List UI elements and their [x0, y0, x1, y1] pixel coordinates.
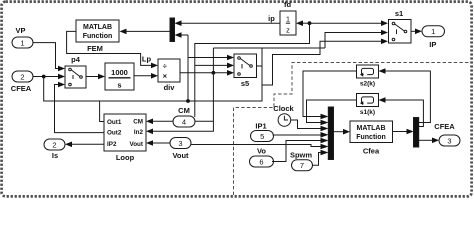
wire clock to mux cfea [291, 120, 321, 129]
wire s2k feedback to mux [303, 71, 357, 117]
svg-text:2: 2 [52, 140, 56, 149]
svg-text:4: 4 [182, 117, 186, 126]
wire mux to MATLAB Cfea [334, 131, 344, 133]
svg-text:p4: p4 [71, 55, 81, 64]
node ip junction [308, 21, 312, 25]
wire s1 to IP [411, 30, 415, 32]
svg-text:Cfea: Cfea [363, 147, 380, 156]
wire Vout right to mux cfea [191, 145, 321, 147]
svg-text:VP: VP [15, 26, 25, 35]
wire Vout to Loop [152, 142, 170, 144]
svg-text:div: div [164, 83, 176, 92]
inport VP [12, 26, 33, 48]
wire CFEA branch to s1 in3 [44, 41, 381, 101]
svg-text:s2(k): s2(k) [360, 81, 375, 88]
svg-text:z: z [286, 26, 290, 35]
svg-text:÷: ÷ [163, 62, 167, 71]
wire CM right to In2 riser [195, 120, 213, 122]
wire feedback to mux fa in2 [195, 23, 310, 117]
svg-text:s1(k): s1(k) [360, 109, 375, 116]
clock [273, 104, 294, 126]
svg-text:3: 3 [178, 139, 182, 148]
svg-text:Spwm: Spwm [290, 151, 312, 160]
demux [414, 118, 419, 148]
wire ip: 1/z out to mux fa in1 [181, 22, 280, 24]
transfer fcn 1000/s [105, 63, 134, 90]
svg-text:Out1: Out1 [107, 119, 122, 126]
unit delay fd [280, 0, 296, 35]
wire junction to 1/z in [303, 22, 310, 24]
svg-text:Loop: Loop [116, 153, 135, 162]
wire demux loop to s1k [383, 100, 423, 127]
wire riser to Loop In2 [152, 48, 213, 131]
svg-text:IP: IP [429, 40, 436, 49]
wire Loop Out2 to p4 in3 [55, 85, 105, 133]
MATLAB Function FEM [76, 20, 119, 53]
svg-text:s1: s1 [395, 9, 403, 18]
wire to s5 in2 [195, 64, 227, 66]
wire Loop Out1 riser [100, 101, 104, 122]
svg-text:Function: Function [356, 134, 386, 141]
svg-text:1000: 1000 [111, 68, 128, 77]
svg-text:fd: fd [284, 0, 291, 9]
svg-text:6: 6 [259, 157, 263, 166]
svg-text:CFEA: CFEA [11, 84, 32, 93]
wire s5 out riser [257, 48, 263, 66]
svg-text:Out2: Out2 [107, 130, 122, 137]
svg-text:CM: CM [133, 119, 143, 126]
wire 1000s to div [134, 75, 151, 77]
wire VP to p4 [33, 43, 58, 69]
wire Loop IP2 to Is [72, 143, 104, 145]
inport Vo [250, 147, 274, 168]
wire Vo to mux cfea [272, 141, 321, 162]
svg-text:Is: Is [52, 151, 58, 160]
wire s5 net across [213, 47, 325, 49]
svg-text:7: 7 [300, 161, 304, 170]
inport CM [173, 106, 195, 127]
outport CFEA [434, 122, 460, 146]
switch s5 [234, 54, 257, 88]
divide block div [158, 59, 180, 92]
svg-text:1: 1 [20, 38, 24, 47]
inport CFEA [11, 71, 33, 93]
wire riser to s1 in2 [325, 33, 381, 49]
outport IP [422, 26, 445, 49]
wire demux to CFEA outport [419, 139, 432, 141]
svg-text:Lp: Lp [142, 55, 152, 64]
mux cfea [328, 107, 333, 160]
svg-text:FEM: FEM [87, 44, 103, 53]
memory s2(k) [357, 65, 379, 88]
wire FEM out to div [67, 31, 151, 65]
svg-text:Function: Function [83, 33, 113, 40]
wire MATLAB Cfea to demux [393, 131, 407, 133]
svg-text:2: 2 [20, 72, 24, 81]
svg-text:In2: In2 [134, 129, 144, 136]
mux fa [170, 18, 175, 42]
inport Vout [170, 138, 191, 161]
svg-text:3: 3 [447, 136, 451, 145]
wire p4 to 1000s [86, 76, 98, 78]
svg-text:MATLAB: MATLAB [83, 24, 112, 31]
switch s1 [389, 9, 412, 43]
switch p4 [65, 55, 86, 88]
wire mux fa to FEM [127, 30, 171, 32]
svg-text:s5: s5 [241, 79, 249, 88]
wire CM to Loop [152, 120, 173, 122]
svg-text:Vo: Vo [257, 147, 266, 156]
svg-text:1: 1 [286, 15, 290, 24]
svg-text:IP2: IP2 [107, 141, 117, 148]
MATLAB Function Cfea [350, 121, 393, 156]
svg-text:Clock: Clock [273, 104, 294, 113]
wire junction to s1 in1 [310, 22, 382, 24]
inport Spwm [290, 151, 313, 171]
wire s1k feedback to mux [307, 100, 357, 123]
svg-text:×: × [163, 72, 168, 81]
svg-text:Vout: Vout [129, 141, 143, 148]
wire CFEA to p4 [33, 76, 58, 78]
wire demux loop to s2k [383, 71, 430, 123]
svg-text:CM: CM [178, 106, 190, 115]
wire IP1 to mux cfea [273, 134, 321, 136]
svg-text:Vout: Vout [172, 151, 189, 160]
svg-text:ip: ip [268, 14, 275, 23]
svg-text:CFEA: CFEA [434, 122, 455, 131]
node CFEA junction [42, 75, 46, 79]
dashed subsystem boundary [234, 63, 471, 196]
wire ip net to s5 in1 [188, 57, 227, 59]
outport Is [44, 139, 65, 160]
wire div to s5 in3 [180, 72, 227, 74]
inport IP1 [251, 122, 274, 142]
svg-text:MATLAB: MATLAB [356, 125, 385, 132]
svg-text:IP1: IP1 [255, 122, 266, 131]
wire Spwm to mux cfea [313, 153, 322, 166]
memory s1(k) [357, 94, 379, 117]
svg-text:1: 1 [431, 27, 435, 36]
svg-text:5: 5 [260, 132, 264, 141]
subsystem Loop [104, 114, 146, 162]
svg-text:s: s [117, 81, 121, 90]
